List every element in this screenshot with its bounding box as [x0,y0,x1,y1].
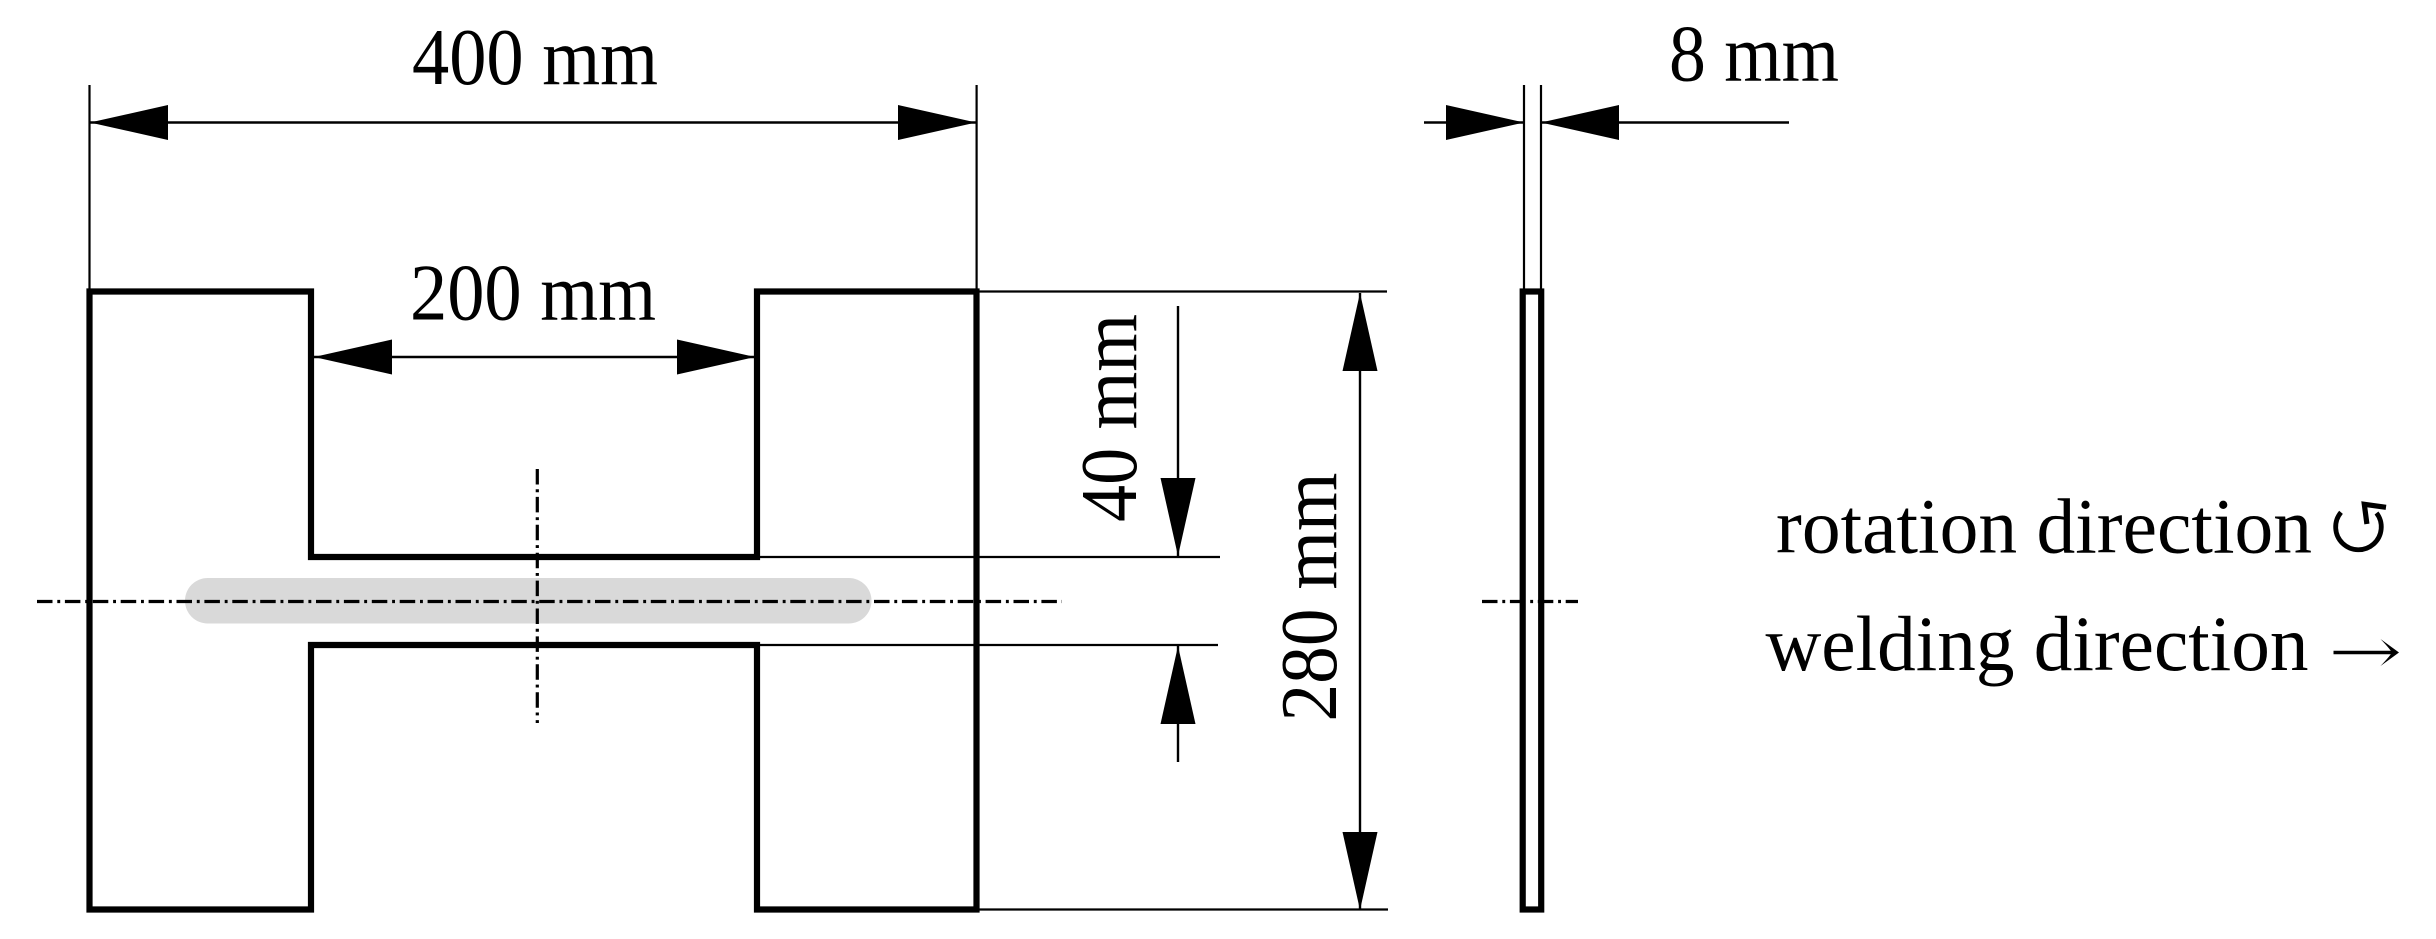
svg-text:welding direction: welding direction [1766,600,2309,687]
extension line 40mm top [760,556,1220,558]
dimension line 400mm [90,121,976,123]
centerline (side view) [1482,600,1578,603]
svg-text:280 mm: 280 mm [1264,473,1354,722]
extension line 400mm left [88,85,90,289]
extension line 400mm right [975,85,977,289]
dimension line 40mm (bottom part) [1177,646,1179,762]
extension line 8mm left [1523,85,1525,289]
centerline horizontal (front view) [37,600,1062,603]
svg-text:400 mm: 400 mm [412,12,658,102]
weld seam gray band [185,578,872,624]
svg-text:200 mm: 200 mm [410,248,656,338]
rotation symbol (counterclockwise arrow) [2336,504,2386,549]
extension line 8mm right [1540,85,1542,289]
extension line 280mm top [978,290,1387,292]
svg-text:8 mm: 8 mm [1669,9,1839,99]
centerline vertical (front view) [536,469,539,723]
dimension line 40mm (top part) [1177,306,1179,556]
extension line 280mm bottom [978,908,1388,910]
welding direction arrow [2334,639,2400,666]
svg-text:rotation direction: rotation direction [1776,483,2312,570]
extension line 40mm bottom [760,644,1218,646]
dimension line 200mm [314,356,755,358]
H-shaped specimen outline (front view) [90,292,977,910]
dimension line 8mm (right part) [1541,121,1789,123]
dimension line 8mm (left part) [1424,121,1524,123]
dimension line 280mm [1359,293,1361,910]
svg-text:40 mm: 40 mm [1064,314,1154,522]
side view plate [1523,292,1542,910]
